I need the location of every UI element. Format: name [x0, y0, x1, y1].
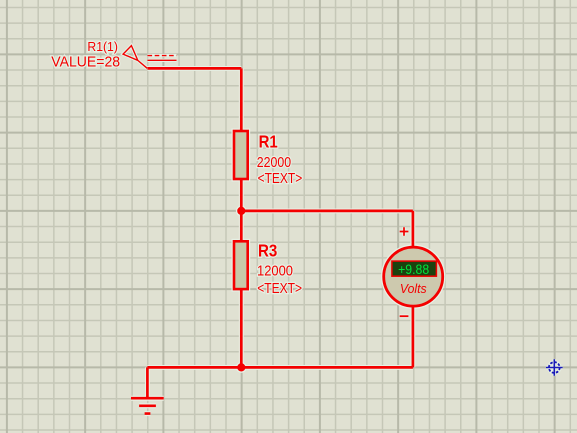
- svg-text:12000: 12000: [257, 263, 293, 279]
- svg-text:22000: 22000: [257, 155, 291, 171]
- halo: resistor R1 body: [234, 131, 248, 179]
- wire: R3 bottom to bottom rail: [240, 289, 243, 367]
- svg-text:<TEXT>: <TEXT>: [258, 171, 303, 187]
- halo: wire: vertical down to R1 top: [239, 68, 244, 132]
- halo: voltmeter body circle: [384, 247, 443, 306]
- halo: minus terminal mark: [400, 314, 409, 318]
- wire: R1 bottom through node A to R3 top: [240, 179, 243, 242]
- halo: DC symbol solid line: [148, 59, 177, 62]
- svg-text:R1: R1: [259, 132, 278, 152]
- svg-text:R1(1): R1(1): [87, 39, 118, 54]
- DC symbol dashed line: [148, 55, 177, 57]
- voltmeter body circle: [384, 247, 443, 306]
- wire: middle horizontal node A to voltmeter: [241, 210, 413, 213]
- svg-text:R3: R3: [258, 241, 277, 261]
- svg-text:<TEXT>: <TEXT>: [257, 281, 302, 297]
- LCD display panel: [392, 261, 437, 276]
- generator probe cone R1(1): [123, 46, 147, 69]
- halo: wire: ground riser: [145, 367, 150, 398]
- halo: wire: voltmeter positive lead: [410, 211, 415, 248]
- wire: ground riser: [146, 367, 149, 398]
- ground symbol: [131, 398, 164, 413]
- svg-text:VALUE=28: VALUE=28: [51, 53, 120, 70]
- plus terminal mark: [400, 227, 409, 236]
- halo: wire: R1 bottom through node A to R3 top: [239, 179, 244, 242]
- halo: DC symbol dashed line: [148, 54, 177, 57]
- halo: generator probe cone R1(1): [123, 46, 147, 69]
- halo: wire: R3 bottom to bottom rail: [239, 289, 244, 367]
- svg-text:Volts: Volts: [400, 282, 427, 296]
- wire: voltmeter positive lead: [412, 211, 415, 248]
- halo: wire: top horizontal from generator to corner: [148, 66, 242, 71]
- wire: voltmeter negative lead: [412, 305, 415, 367]
- halo: resistor R3 body: [234, 241, 248, 289]
- halo: LCD display panel: [392, 261, 437, 276]
- junction node B: [237, 363, 245, 371]
- halo: ground symbol: [131, 398, 164, 413]
- DC symbol solid line: [148, 59, 177, 61]
- halo: junction node A: [236, 206, 247, 217]
- minus terminal mark: [400, 315, 409, 317]
- junction node A: [237, 207, 245, 215]
- halo: origin marker crosshair: [546, 359, 563, 375]
- wire: bottom horizontal rail: [147, 366, 413, 369]
- wire: top horizontal from generator to corner: [148, 67, 242, 70]
- resistor R3 body: [234, 241, 248, 289]
- halo: wire: voltmeter negative lead: [410, 305, 415, 367]
- wire: vertical down to R1 top: [240, 68, 243, 132]
- halo: junction node B: [236, 362, 247, 373]
- origin marker crosshair: [546, 359, 563, 375]
- halo: wire: middle horizontal node A to voltmeter: [241, 208, 413, 213]
- halo: wire: bottom horizontal rail: [147, 365, 413, 370]
- svg-text:+9.88: +9.88: [398, 262, 429, 277]
- resistor R1 body: [234, 131, 248, 179]
- halo: plus terminal mark: [400, 227, 409, 236]
